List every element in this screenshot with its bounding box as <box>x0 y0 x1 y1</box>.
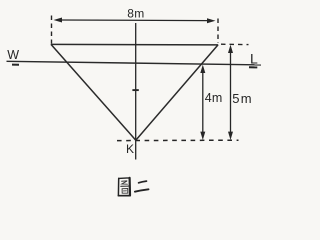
svg-text:K: K <box>126 142 134 156</box>
dashed level line through K <box>117 139 239 141</box>
dimension line 8 m <box>54 18 216 24</box>
left edge of triangular gate <box>51 44 136 140</box>
svg-text:m: m <box>241 91 252 106</box>
dimension arrow 4 m <box>200 65 205 140</box>
label 5 m <box>232 91 251 106</box>
water mark under W <box>12 64 19 66</box>
caption 圖 (Figure) drawn as strokes <box>118 178 130 196</box>
water surface line W-L <box>7 61 262 65</box>
svg-text:L: L <box>250 51 258 67</box>
water mark under L <box>249 66 257 68</box>
extension line left (dashed) <box>51 16 53 44</box>
right edge of triangular gate <box>136 45 218 140</box>
svg-text:m: m <box>212 91 222 105</box>
top edge of gate <box>51 43 218 46</box>
label 4 m <box>205 91 223 105</box>
dashed level line at top-right corner <box>221 43 249 45</box>
caption 二 (two) drawn as strokes <box>135 181 149 192</box>
svg-text:5: 5 <box>232 91 239 106</box>
svg-text:W: W <box>7 48 19 62</box>
svg-text:4: 4 <box>205 91 212 105</box>
centroid tick on centre line <box>132 89 138 91</box>
centre line <box>135 23 137 160</box>
svg-text:8: 8 <box>127 7 134 21</box>
svg-text:m: m <box>134 7 144 21</box>
label 8 m <box>127 7 144 21</box>
dimension arrow 5 m <box>228 45 233 140</box>
extension line right (dashed) <box>217 19 219 44</box>
